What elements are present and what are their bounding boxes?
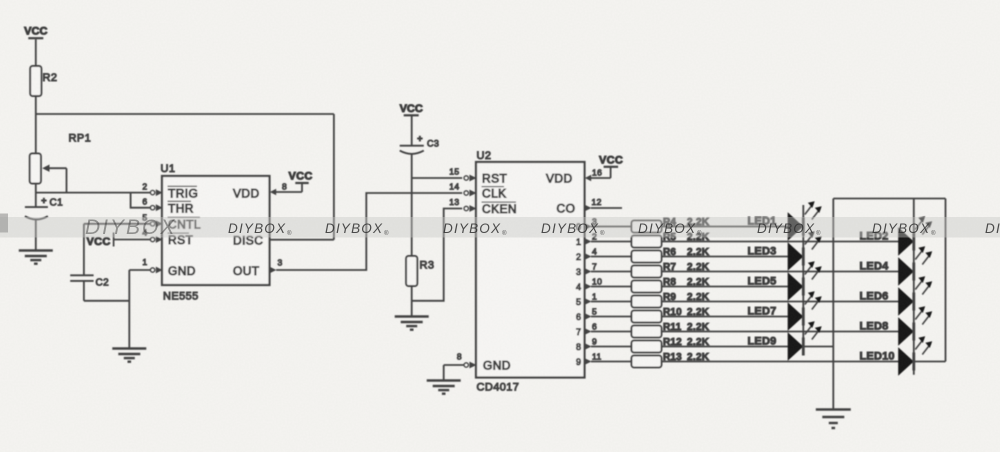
- LED LED7: [788, 291, 822, 331]
- label R8 2.2K: [663, 277, 710, 288]
- wire VCC to RST (pin 4): [114, 239, 151, 241]
- wire CKEN (pin 13) to ground net: [412, 209, 463, 301]
- capacitor C3 (polarized): [400, 133, 440, 256]
- wire VCC to C3: [411, 116, 413, 146]
- LED LED5: [788, 261, 822, 301]
- ground (U1): [112, 349, 146, 362]
- label R12 2.2K: [663, 337, 710, 348]
- U1 pin label THR (overline): [168, 201, 194, 215]
- label LED9: [748, 336, 777, 348]
- wire Q7 to R11: [591, 331, 632, 333]
- resistor R6: [632, 251, 662, 263]
- label R7 2.2K: [663, 262, 710, 273]
- wire ground line (vertical): [832, 199, 834, 409]
- U1 pin label DISC: [233, 233, 263, 247]
- U2 pin label RST: [482, 172, 507, 186]
- resistor R4: [632, 221, 662, 233]
- U1 pin label RST (overline): [168, 233, 194, 247]
- resistor R5: [632, 236, 662, 248]
- U1 pin label TRIG (overline): [168, 186, 199, 200]
- label LED8: [860, 321, 889, 333]
- U2 output labels 0-9: [576, 222, 581, 367]
- wire R2 to RP1: [35, 96, 37, 154]
- U2 pin 9 connector (Q8): [585, 336, 598, 350]
- LED LED8: [898, 306, 932, 346]
- IC U2 CD4017 body: [476, 150, 585, 394]
- wire R13 to LED10: [662, 361, 899, 363]
- label R10 2.2K: [663, 307, 710, 318]
- wire right cathode bus: [913, 199, 915, 375]
- wire R6 to LED3: [662, 256, 789, 258]
- resistor R2: [30, 66, 57, 96]
- power symbol VCC at U1 RST: [87, 233, 114, 249]
- U1 pin label VDD: [233, 186, 260, 200]
- resistor R7: [632, 266, 662, 278]
- U1 pin 4 connector: [142, 227, 162, 243]
- LED LED2: [898, 216, 932, 256]
- U2 pin 3 connector (Q0): [585, 216, 598, 230]
- wire right edge: [945, 199, 947, 362]
- label LED4: [860, 261, 890, 273]
- U1 pin label GND: [168, 264, 196, 278]
- wire OUT (pin 3) to CLK: [276, 193, 462, 270]
- U2 pin 10 connector (Q4): [585, 276, 603, 290]
- label R4 2.2K: [663, 217, 710, 228]
- U2 pin 14 connector: [449, 182, 476, 197]
- ground (R3): [395, 317, 429, 330]
- U2 pin 15 connector: [449, 167, 476, 182]
- U2 pin label CLK (overline): [482, 187, 507, 201]
- VCC power symbol: [400, 103, 423, 116]
- power symbol VCC (top left): [24, 26, 47, 39]
- U2 pin 4 connector (Q2): [585, 246, 598, 260]
- capacitor C1 (polarized): [25, 196, 63, 251]
- wire C2 to GND net: [84, 300, 129, 302]
- wire VDD (pin 8) to VCC: [276, 191, 303, 193]
- wire R4 to LED1: [662, 226, 789, 228]
- capacitor C2: [70, 275, 109, 301]
- wire R3 to ground: [411, 286, 413, 316]
- ground symbol at U2 GND: [427, 381, 461, 394]
- wire Q4 to R8: [591, 286, 632, 288]
- watermark band: [0, 217, 1000, 238]
- wire Q0 to R4: [591, 226, 632, 228]
- wire CO stub: [591, 207, 622, 209]
- wire Q9 to R13: [591, 361, 632, 363]
- U2 pin 13 connector: [449, 197, 476, 212]
- LED LED4: [898, 246, 932, 285]
- LED LED10: [898, 336, 932, 376]
- potentiometer RP1: [30, 133, 91, 193]
- wire R2/RP1 junction to DISC (top horizontal): [36, 113, 334, 115]
- label R6 2.2K: [663, 247, 710, 258]
- power symbol VCC at U1 VDD: [288, 171, 312, 193]
- label R9 2.2K: [663, 292, 710, 303]
- LED LED3: [788, 231, 822, 270]
- resistor R10: [632, 311, 662, 323]
- label LED10: [860, 351, 895, 363]
- wire Q1 to R5: [591, 241, 632, 243]
- label R11 2.2K: [663, 322, 710, 333]
- wire DISC (pin 7): [270, 239, 334, 241]
- wire down to DISC node: [333, 114, 335, 240]
- watermark DIYBOX row: [228, 221, 1000, 237]
- wire GND (pin 8) to ground: [444, 365, 464, 380]
- U2 pin 5 connector (Q6): [585, 306, 598, 320]
- label LED1: [748, 216, 777, 228]
- wire Q2 to R6: [591, 256, 632, 258]
- label LED7: [748, 306, 777, 318]
- LED LED6: [898, 276, 932, 316]
- power symbol VCC at U2 VDD: [591, 155, 624, 178]
- ground symbol at C1: [19, 251, 53, 264]
- U1 pin 3 connector: [270, 257, 283, 273]
- ground (LED bus): [816, 410, 851, 429]
- wire R9 to LED6: [662, 301, 899, 303]
- ground symbol at U1 GND: [112, 349, 146, 362]
- resistor R11: [632, 326, 662, 338]
- wire R10 to LED7: [662, 316, 789, 318]
- op IC U1 NE555 body: [161, 163, 270, 303]
- U2 pin 16 connector: [585, 168, 602, 182]
- wire RP1 bottom to C1/TRIG node: [35, 184, 37, 208]
- LED LED9: [788, 321, 822, 361]
- U1 pin 5 connector: [142, 213, 162, 228]
- U2 pin 2 connector (Q1): [585, 231, 598, 245]
- wire Q3 to R7: [591, 271, 632, 273]
- resistor R13: [632, 356, 662, 368]
- label LED3: [748, 246, 777, 258]
- wire branch TRIG to THR: [131, 193, 151, 208]
- ground symbol at R3: [395, 317, 429, 330]
- U2 pin 6 connector (Q7): [585, 321, 598, 335]
- label LED5: [748, 276, 777, 288]
- U2 pin label GND: [483, 359, 511, 373]
- resistor R3: [406, 256, 434, 286]
- resistor R9: [632, 296, 662, 308]
- ground (C1): [19, 251, 53, 264]
- label R5 2.2K: [663, 232, 710, 243]
- wire GND (pin 1) down: [129, 270, 150, 348]
- wire top bus: [833, 198, 945, 200]
- U2 pin 12 connector (CO): [585, 197, 602, 211]
- label R13 2.2K: [663, 352, 710, 363]
- U2 pin label CKEN (overline): [482, 202, 517, 216]
- wire R12 to LED9: [662, 346, 789, 348]
- wire Q5 to R9: [591, 301, 632, 303]
- wire Q8 to R12: [591, 346, 632, 348]
- resistor R12: [632, 341, 662, 353]
- wire node to TRIG (pin 2): [36, 192, 151, 194]
- wire R8 to LED5: [662, 286, 789, 288]
- wire LED10 row to right edge: [914, 361, 946, 363]
- wire R5 to LED2: [662, 241, 899, 243]
- U2 pin 1 connector (Q5): [585, 291, 598, 305]
- LED LED1: [788, 201, 822, 241]
- ground (U2): [427, 381, 461, 394]
- U2 pin 8 connector: [457, 352, 477, 369]
- wire Q6 to R10: [591, 316, 632, 318]
- U1 pin 1 connector: [142, 257, 162, 273]
- wire left cathode bus: [802, 205, 804, 352]
- watermark edge block: [0, 214, 8, 233]
- wire CNTL (pin 5) to C2: [84, 224, 150, 275]
- U1 pin 8 connector: [270, 182, 287, 196]
- U2 pin label VDD: [546, 172, 573, 186]
- label LED6: [860, 291, 889, 303]
- wire VCC to R2: [35, 39, 37, 66]
- power symbol VCC (above C3): [400, 103, 423, 116]
- U1 pin label CNTL (overline): [168, 217, 201, 231]
- U2 pin label CO: [557, 202, 576, 216]
- U2 pin 11 connector (Q9): [585, 351, 602, 365]
- wire R11 to LED8: [662, 331, 899, 333]
- wire R7 to LED4: [662, 271, 899, 273]
- resistor R8: [632, 281, 662, 293]
- U1 pin 2 connector: [142, 181, 162, 196]
- wire left bus to ground line: [803, 346, 833, 348]
- wire C3/R3 node to RST (pin 15): [412, 177, 463, 179]
- VCC power symbol: [24, 26, 47, 39]
- U1 pin label OUT: [233, 264, 260, 278]
- U1 pin 6 connector: [142, 196, 162, 211]
- label LED2: [860, 231, 889, 243]
- U2 pin 7 connector (Q3): [585, 261, 598, 275]
